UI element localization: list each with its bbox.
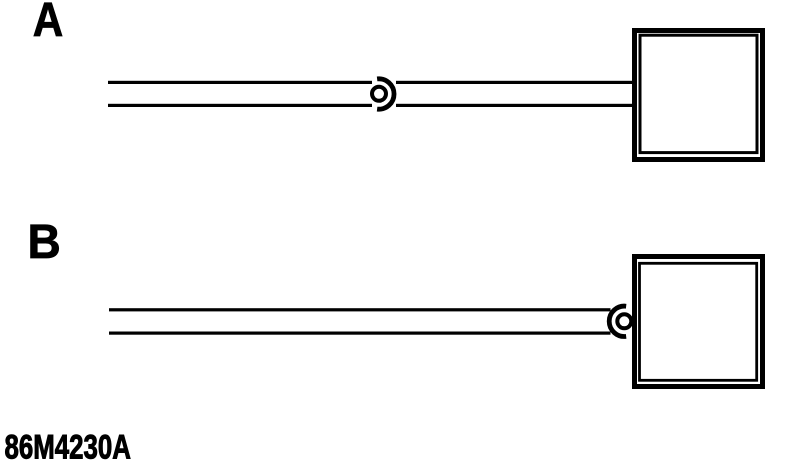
wire: figure A bottom line left segment [108,104,372,107]
node: figure B grease-fitting ring [617,314,631,328]
svg-text:B: B [28,214,61,268]
box B outer border [635,257,763,387]
svg-text:A: A [33,0,64,47]
node: figure A arc (open left) [377,79,394,109]
wire: figure A bottom line right segment [396,104,633,107]
wire: figure A top line left segment [108,81,372,84]
wire: figure B top line [109,308,611,311]
box B inner border [640,263,757,380]
svg-text:86M4230A: 86M4230A [5,429,131,462]
wire: figure B bottom line [109,332,611,335]
node: figure A grease-fitting ring [372,87,386,101]
node: figure B arc (open right) [609,306,626,336]
box A inner border [640,35,757,152]
wire: figure A top line right segment [396,81,633,84]
box A outer border [635,31,763,160]
